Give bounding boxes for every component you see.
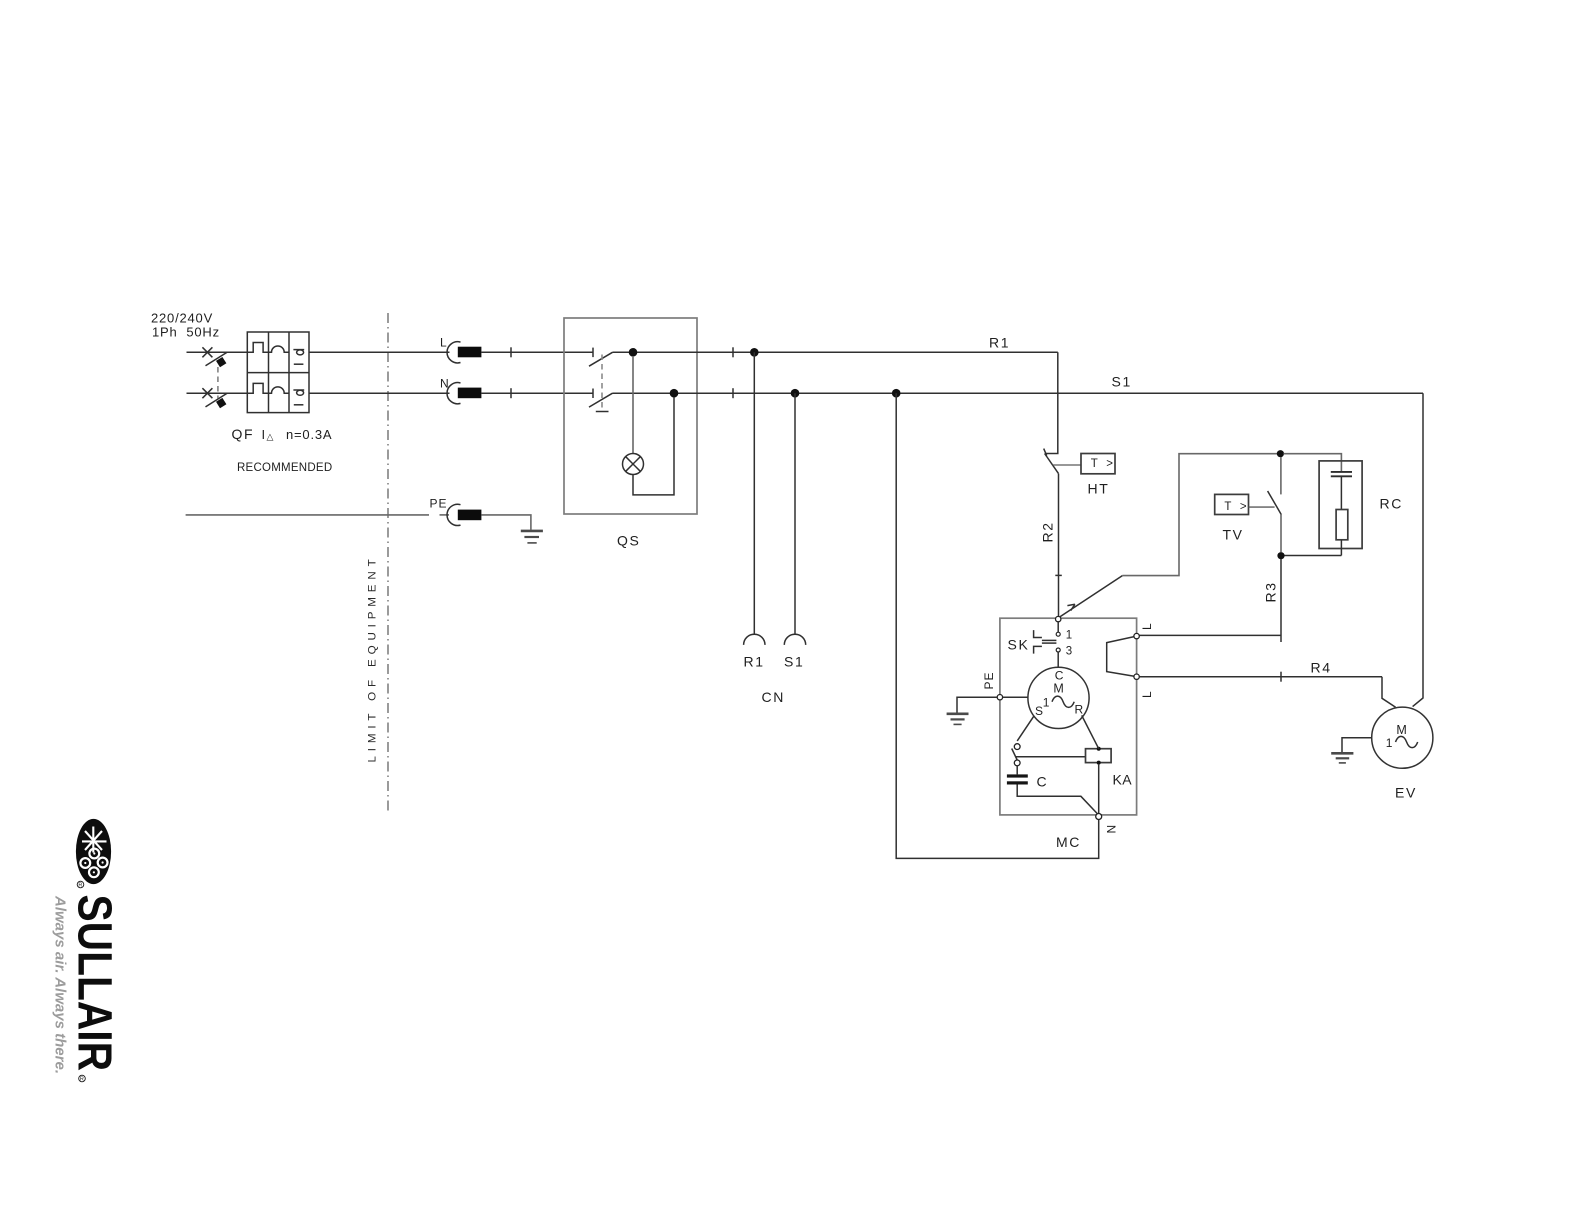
svg-text:CN: CN	[762, 689, 785, 705]
wire R2	[1058, 474, 1060, 617]
wire PE terminal to ground	[957, 697, 997, 713]
wire PE stub at label	[440, 514, 450, 516]
motor unit MC box	[1000, 618, 1137, 815]
ground symbol PE mains	[521, 531, 543, 543]
terminal X mark N	[202, 388, 212, 398]
svg-text:S: S	[1035, 704, 1044, 718]
wire lamp to N junction	[633, 397, 674, 495]
tick mark R2 wire	[1055, 574, 1062, 576]
terminal L lower on MC	[1134, 674, 1139, 679]
wire R4	[1139, 676, 1382, 678]
svg-text:R3: R3	[1263, 581, 1279, 602]
svg-text:1: 1	[1386, 736, 1394, 750]
ground symbol EV	[1331, 753, 1353, 763]
svg-text:RECOMMENDED: RECOMMENDED	[237, 462, 332, 474]
svg-text:KA: KA	[1113, 771, 1133, 787]
svg-text:R: R	[1075, 703, 1085, 717]
centrifugal switch blade	[1012, 749, 1018, 761]
plug socket arc PE	[447, 504, 460, 525]
breaker QF pole N blade	[206, 393, 228, 407]
junction return-wire drop	[892, 389, 901, 398]
svg-text:MC: MC	[1056, 834, 1081, 850]
svg-text:I: I	[262, 427, 266, 442]
plug socket arc L	[447, 342, 460, 363]
QF pole L I marking (rotated bar)	[294, 363, 304, 365]
HT contact tick	[1044, 449, 1047, 456]
motor R lead to KA	[1082, 715, 1099, 748]
svg-text:R1: R1	[989, 335, 1010, 351]
svg-text:L: L	[1140, 622, 1154, 630]
wire TV upper	[1280, 457, 1282, 494]
terminal MC top (R2)	[1056, 616, 1061, 621]
QF pole N magnetic hump symbol	[269, 387, 290, 393]
svg-text:SULLAIR: SULLAIR	[68, 895, 121, 1072]
plug socket arc N	[447, 383, 460, 404]
svg-text:C: C	[1037, 774, 1049, 790]
svg-text:n=0.3A: n=0.3A	[286, 427, 332, 442]
tick mark N wire	[510, 388, 512, 398]
RC capacitor plates	[1331, 472, 1352, 476]
svg-text:M: M	[1053, 682, 1063, 696]
svg-text:>: >	[1106, 458, 1113, 470]
wire lamp drop	[632, 356, 634, 454]
QF pole N thermal pulse symbol	[247, 383, 268, 393]
QS link end bar	[596, 411, 609, 413]
tick mark R4 wire	[1280, 672, 1282, 682]
svg-text:T: T	[1224, 501, 1231, 513]
relay KA coil box	[1086, 749, 1112, 763]
junction CN R1 drop	[750, 348, 759, 357]
wire R1 corner down to HT	[1046, 352, 1058, 453]
thermostat TV blade	[1268, 491, 1282, 515]
svg-text:>: >	[1240, 501, 1247, 513]
svg-text:R1: R1	[744, 654, 765, 670]
SK contact 1 circle	[1056, 632, 1060, 636]
terminal PE on MC	[997, 695, 1002, 700]
wire TV lower	[1280, 515, 1282, 553]
relay KA contact blade	[1060, 576, 1122, 617]
svg-text:RC: RC	[1380, 496, 1403, 512]
svg-text:LIMIT OF EQUIPMENT: LIMIT OF EQUIPMENT	[367, 555, 379, 763]
wire R3 vertical	[1280, 559, 1282, 642]
QS link dashed	[601, 355, 603, 412]
QF pole N I marking (rotated bar)	[294, 404, 304, 406]
wire N plug to QS	[481, 392, 593, 394]
junction TV top	[1277, 450, 1284, 457]
wire R4 drop to EV	[1382, 677, 1396, 708]
svg-text:3: 3	[1066, 645, 1072, 657]
motor MC circle	[1028, 667, 1089, 728]
svg-text:R4: R4	[1311, 660, 1332, 676]
wire CN S1 drop	[794, 393, 796, 634]
plug pin L (black)	[458, 347, 482, 358]
connector CN pin S1 arc	[784, 634, 805, 645]
breaker QF pole N trip square	[216, 398, 226, 408]
svg-text:N: N	[1104, 824, 1118, 834]
switch-box QS outline	[564, 318, 697, 514]
svg-text:R2: R2	[1040, 521, 1056, 542]
breaker QF pole L blade	[206, 352, 228, 365]
QF mechanical link dashed	[217, 367, 219, 398]
pushbutton SK bracket lower	[1034, 646, 1042, 653]
wire S1 drop to EV	[1413, 393, 1423, 706]
MC plug bracket to L terminals	[1107, 637, 1135, 677]
thermostat HT box	[1081, 454, 1115, 474]
svg-text:QF: QF	[232, 426, 255, 442]
svg-text:QS: QS	[617, 532, 640, 548]
QF pole L magnetic hump symbol	[269, 346, 290, 352]
tick mark L wire	[510, 347, 512, 357]
wire KA coil to terminal N	[1098, 765, 1100, 814]
breaker QF pole L trip square	[216, 357, 226, 367]
wire KA contact to TV branch	[1122, 454, 1277, 576]
limit of equipment dash-dot line	[387, 313, 389, 813]
svg-text:T: T	[1091, 458, 1098, 470]
wire TV top to RC capacitor	[1284, 454, 1342, 472]
capacitor C top lead	[1016, 766, 1018, 775]
svg-text:R: R	[80, 1077, 84, 1083]
wire PE terminal to motor	[1003, 696, 1028, 698]
connector CN pin R1 arc	[744, 634, 765, 645]
terminal X mark L	[202, 347, 212, 357]
RC resistor	[1336, 510, 1348, 540]
wire L through QS to R1 corner	[613, 351, 1058, 353]
svg-text:C: C	[1055, 669, 1065, 683]
svg-text:R: R	[78, 883, 82, 889]
svg-text:S1: S1	[784, 654, 804, 670]
svg-text:L: L	[1140, 690, 1154, 698]
tick mark N wire right of QS	[732, 388, 734, 398]
svg-text:S1: S1	[1112, 374, 1132, 390]
fan motor EV circle	[1372, 707, 1433, 768]
wire terminal to SK contact 1	[1057, 622, 1059, 633]
KA coil bottom junction dot	[1097, 761, 1101, 765]
wire PE to ground	[481, 515, 531, 530]
plug pin PE (black)	[458, 510, 482, 521]
capacitor C plates	[1007, 774, 1028, 777]
capacitor bottom lead to N	[1017, 785, 1097, 814]
RC capacitor to resistor lead	[1340, 476, 1342, 509]
svg-text:TV: TV	[1223, 527, 1244, 543]
wire return N to MC	[896, 393, 1098, 858]
junction L-lamp	[629, 348, 638, 357]
QS pole N contact tick	[592, 389, 594, 399]
QS pole L blade	[589, 352, 613, 366]
svg-text:PE: PE	[430, 497, 448, 511]
TV link to box	[1249, 506, 1275, 508]
QS pole L contact tick	[592, 348, 594, 358]
breaker QF body	[247, 332, 309, 413]
wire L plug to QS	[481, 351, 593, 353]
lamp QS (circle with X)	[623, 454, 644, 475]
svg-text:1Ph 50Hz: 1Ph 50Hz	[152, 325, 220, 340]
terminal N on MC	[1096, 814, 1102, 820]
motor wave symbol	[1052, 696, 1074, 707]
plug pin N (black)	[458, 388, 482, 399]
QF pole L thermal pulse symbol	[247, 343, 268, 353]
junction TV bottom	[1277, 552, 1284, 559]
wire CN R1 drop	[753, 352, 755, 634]
RC resistor bottom lead	[1340, 540, 1342, 556]
junction CN S1 drop	[791, 389, 800, 398]
wire SK to motor terminal C	[1057, 652, 1059, 667]
wire switch to KA coil	[1015, 756, 1085, 758]
wire N breaker to plug	[309, 392, 450, 394]
terminal L upper on MC	[1134, 633, 1139, 638]
SK contact 3 circle	[1056, 648, 1060, 652]
KA coil top junction dot	[1097, 747, 1101, 751]
tick mark L wire right of QS	[732, 347, 734, 357]
svg-text:L: L	[440, 336, 448, 350]
wire N through QS to S1 corner	[613, 392, 1424, 394]
wire L breaker to plug	[309, 351, 450, 353]
Sullair logo snowflake	[82, 827, 107, 853]
pushbutton SK plunger	[1042, 640, 1057, 643]
centrifugal switch lower contact	[1014, 760, 1020, 766]
motor S lead	[1017, 716, 1034, 741]
centrifugal switch upper contact	[1014, 744, 1020, 750]
Sullair logo nuts	[80, 849, 107, 878]
wire L supply	[187, 351, 249, 353]
wire RC bottom to TV junction	[1285, 555, 1342, 557]
registered mark lower	[79, 1075, 86, 1083]
EV ground wire	[1342, 738, 1372, 753]
svg-text:△: △	[267, 431, 274, 441]
registered mark upper	[77, 881, 84, 889]
junction lamp-N	[670, 389, 679, 398]
wire R3 horizontal to MC terminal L	[1139, 634, 1281, 636]
HT link to box	[1053, 464, 1081, 466]
snubber RC box	[1319, 461, 1362, 549]
svg-text:Always air. Always there.: Always air. Always there.	[52, 895, 68, 1074]
QF pole L Id marking (rotated d)	[293, 350, 304, 355]
QS pole N blade	[589, 393, 613, 407]
svg-text:SK: SK	[1008, 637, 1030, 653]
thermostat TV box	[1215, 494, 1249, 514]
thermostat HT blade	[1045, 454, 1059, 474]
Sullair logo ellipse	[76, 819, 111, 884]
KA contact blade arrow	[1067, 604, 1075, 610]
wire PE from left margin	[186, 514, 429, 516]
ground symbol MC	[947, 714, 969, 725]
svg-text:EV: EV	[1395, 785, 1417, 801]
wire N supply	[187, 392, 249, 394]
pushbutton SK bracket upper	[1034, 630, 1042, 637]
svg-text:1: 1	[1066, 629, 1072, 641]
svg-text:M: M	[1396, 723, 1406, 737]
EV wave symbol	[1396, 736, 1418, 747]
svg-text:HT: HT	[1088, 481, 1110, 497]
svg-text:220/240V: 220/240V	[151, 311, 213, 326]
QF pole N Id marking (rotated d)	[293, 390, 304, 395]
svg-text:PE: PE	[982, 671, 996, 689]
